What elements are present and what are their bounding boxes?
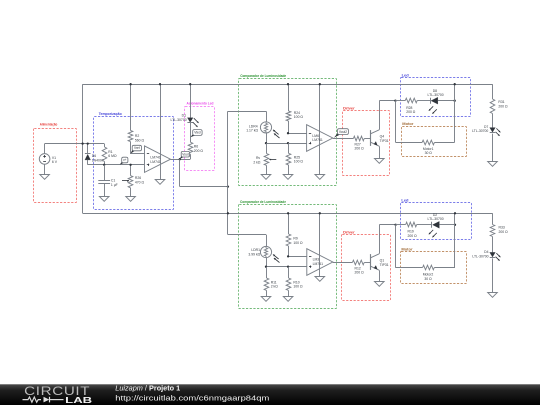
svg-text:Comparador de Luminosidade: Comparador de Luminosidade	[240, 73, 287, 78]
resistor R33 200 Ohm	[490, 213, 508, 252]
resistor R31 200 Ohm	[490, 84, 508, 127]
svg-text:2 kΩ: 2 kΩ	[253, 160, 261, 164]
wire to LDR1	[228, 235, 267, 247]
wire mid vertical	[227, 111, 229, 234]
wire rail drop to LED D1	[190, 84, 192, 118]
wire V+ top rail	[83, 84, 493, 86]
junction mid vertical at lower rail	[227, 212, 229, 214]
svg-text:Alimentação: Alimentação	[40, 122, 58, 127]
wire D1 to R6	[190, 123, 192, 143]
led D8 LTL-30700	[428, 89, 444, 114]
svg-text:1 µF: 1 µF	[111, 183, 118, 187]
op-amp LM3 power rail line	[319, 213, 321, 277]
svg-text:30 Ω: 30 Ω	[425, 151, 433, 155]
op-amp LM3 labels	[313, 258, 323, 266]
svg-text:LTL-30700: LTL-30700	[472, 255, 488, 259]
ground below Q4	[375, 159, 385, 164]
junction opamp supply at rail	[159, 83, 161, 85]
resistor R25 100 Ohm	[286, 143, 303, 174]
wire timer output down-right	[180, 159, 228, 186]
junction right vertical at lower rail	[454, 212, 456, 214]
junction R25 top	[287, 142, 289, 144]
junction D6 top	[87, 142, 89, 144]
wire V1 top to rail drop	[45, 144, 105, 154]
junction R10 top	[287, 266, 289, 268]
wire plus input upper comparator	[266, 143, 307, 145]
svg-text:3.99 kΩ: 3.99 kΩ	[248, 252, 260, 256]
wire motor1 branch	[395, 101, 422, 143]
wire timer output	[171, 159, 191, 161]
svg-text:http://circuitlab.com/c6nmgaar: http://circuitlab.com/c6nmgaarp84qm	[115, 394, 269, 403]
svg-text:Vref: Vref	[134, 146, 140, 150]
op-amp LM6 power rail line	[319, 84, 321, 174]
junction R2 at rail	[129, 83, 131, 85]
junction R9 at lower rail	[287, 212, 289, 214]
resistor R9 100 Ohm	[286, 213, 303, 256]
svg-text:TIP31: TIP31	[380, 263, 389, 267]
resistor R11 2 kOhm	[264, 267, 278, 297]
ground below R26	[126, 197, 136, 202]
junction R26 top	[129, 164, 131, 166]
op-amp LM6 input signs	[309, 134, 311, 145]
resistor R1 6 MOhm	[102, 144, 117, 165]
potentiometer Rv 2 kOhm	[253, 143, 276, 174]
junction D8 right	[454, 100, 456, 102]
junction LDR1 bottom	[265, 266, 267, 268]
resistor R27 200 Ohm	[353, 136, 370, 151]
ground below LM6	[315, 175, 325, 180]
transistor Q1 TIP31	[371, 254, 389, 270]
op-amp LM3 input signs	[309, 257, 311, 268]
ground below R11	[261, 297, 271, 302]
node tag Vled	[190, 130, 202, 138]
wire long V+ lower rail	[83, 213, 493, 215]
junction at mid vertical	[227, 185, 229, 187]
voltage source V1 6 V	[39, 154, 57, 165]
svg-text:LM741: LM741	[313, 262, 323, 266]
resistor R12 200 Ohm	[352, 260, 370, 275]
wire motor2 branch	[396, 225, 423, 268]
wire plus input lower comparator	[266, 266, 307, 268]
region box Comparador de Luminosidade upper	[239, 73, 337, 185]
capacitor C1 1 uF	[98, 165, 117, 196]
region box Temporizacao	[94, 111, 174, 210]
ground below R25	[283, 175, 293, 180]
junction D1 drop at rail	[189, 83, 191, 85]
ground below R10	[283, 297, 293, 302]
wire V1 bottom	[44, 164, 46, 174]
resistor R28 200 Ohm	[395, 98, 430, 114]
wire LDR1 bottom	[266, 258, 268, 267]
wire Q4 collector up	[379, 101, 395, 130]
svg-text:Led: Led	[401, 197, 409, 202]
wire v+ net	[88, 164, 145, 166]
wire right vertical lower	[454, 213, 456, 267]
svg-text:1.17 kΩ: 1.17 kΩ	[246, 129, 258, 133]
op-amp LM741 power rail line	[160, 84, 162, 180]
wire D2 to right vertical	[440, 224, 456, 226]
svg-text:100 Ω: 100 Ω	[293, 285, 303, 289]
svg-text:200 Ω: 200 Ω	[408, 234, 418, 238]
svg-text:200 Ω: 200 Ω	[355, 271, 365, 275]
svg-text:Comparador de Luminosidade: Comparador de Luminosidade	[240, 199, 287, 204]
region box Comparador de Luminosidade lower	[239, 199, 337, 309]
op-amp LM3 LM741	[307, 249, 333, 276]
svg-text:470 Ω: 470 Ω	[135, 181, 145, 185]
wire D7 to ground	[492, 134, 494, 162]
transistor Q4 TIP31	[371, 130, 389, 146]
junction LM6 supply at rail	[319, 83, 321, 85]
resistor R6 200 Ohm	[188, 142, 203, 159]
led D7 LTL-30700	[472, 125, 500, 136]
junction LED branch upper	[394, 100, 396, 102]
svg-text:Vled: Vled	[194, 131, 201, 135]
op-amp LM741 labels	[150, 156, 160, 164]
svg-text:2 kΩ: 2 kΩ	[271, 285, 279, 289]
wire Q1 emitter down	[379, 270, 381, 282]
svg-text:Luizapm / Projeto 1: Luizapm / Projeto 1	[115, 384, 180, 393]
svg-text:LAB: LAB	[65, 395, 92, 405]
resistor R19 200 Ohm	[396, 222, 432, 238]
ground below op-amp timer	[155, 180, 165, 185]
diode D6 1N4007	[85, 144, 104, 165]
svg-text:LTL-30700: LTL-30700	[170, 118, 186, 122]
svg-text:200 Ω: 200 Ω	[499, 230, 509, 234]
junction LDR4 bottom	[265, 142, 267, 144]
op-amp LM741 input signs	[147, 154, 149, 167]
node tag v+	[120, 157, 128, 164]
junction LM3 supply at lower rail	[319, 212, 321, 214]
region box Driver lower	[342, 229, 391, 300]
region box Motor lower	[401, 246, 467, 283]
motor Motor1 30 Ohm	[422, 140, 455, 155]
svg-text:100 Ω: 100 Ω	[294, 160, 304, 164]
ground below Rv	[261, 175, 271, 180]
wire Q4 emitter down	[379, 146, 381, 158]
junction D2 right	[454, 224, 456, 226]
wire LM6 output	[333, 138, 354, 140]
ground below V1	[40, 175, 50, 180]
wire D4 to ground	[492, 258, 494, 292]
wire right vertical upper	[454, 84, 456, 142]
svg-text:Motor: Motor	[401, 246, 413, 251]
junction R1 bottom	[103, 164, 105, 166]
svg-text:Driver: Driver	[343, 229, 355, 234]
junction LED branch lower	[394, 224, 396, 226]
junction right vertical at rail	[454, 83, 456, 85]
junction R9 bottom	[287, 255, 289, 257]
region box Led upper	[401, 73, 471, 117]
resistor R2 560 Ohm	[128, 84, 144, 154]
region box Motor upper	[402, 121, 467, 157]
photoresistor LDR4 1.17 kOhm	[246, 122, 279, 138]
resistor R10 100 Ohm	[286, 267, 303, 297]
junction R24 at rail	[287, 83, 289, 85]
svg-text:200 Ω: 200 Ω	[355, 147, 365, 151]
region box Led lower	[401, 197, 472, 239]
wire D8 to right vertical	[438, 100, 455, 102]
wire minus input upper comparator	[288, 133, 307, 135]
ground below D7	[488, 162, 498, 167]
region box Acionamento Led	[185, 101, 215, 171]
svg-text:LTL-30700: LTL-30700	[428, 217, 444, 221]
wire minus input lower comparator	[288, 256, 307, 258]
svg-text:Vout2: Vout2	[339, 130, 347, 134]
wire Q1 collector up	[379, 225, 395, 254]
node tag Vout2	[334, 129, 349, 138]
svg-text:200 Ω: 200 Ω	[406, 110, 416, 114]
svg-text:Vout: Vout	[182, 152, 188, 156]
svg-text:Led: Led	[402, 73, 410, 78]
junction at rail drop and V1 wire	[81, 142, 83, 144]
svg-text:560 Ω: 560 Ω	[135, 139, 145, 143]
svg-text:D1: D1	[182, 113, 186, 117]
led D4 LTL-30700	[472, 250, 500, 261]
wire LDR4 bottom	[266, 133, 268, 143]
wire left V+ drop	[82, 84, 84, 213]
svg-text:LM741: LM741	[312, 138, 322, 142]
wire R2 bottom to op-amp minus	[131, 153, 145, 155]
svg-text:LTL-30700: LTL-30700	[472, 129, 488, 133]
motor Motor2 30 Ohm	[423, 265, 455, 281]
region box Driver upper	[343, 106, 390, 176]
svg-text:TIP31: TIP31	[380, 139, 389, 143]
led D2 LTL-30700	[428, 213, 444, 237]
svg-text:Motor: Motor	[402, 121, 414, 126]
svg-text:30 Ω: 30 Ω	[424, 277, 432, 281]
svg-text:200 Ω: 200 Ω	[498, 104, 508, 108]
op-amp LM6 LM741	[307, 125, 333, 152]
op-amp LM741 timer	[145, 146, 171, 173]
led D1 LTL-30700	[170, 113, 198, 127]
svg-text:v+: v+	[123, 158, 127, 162]
potentiometer R26 470 Ohm	[122, 165, 144, 196]
photoresistor LDR1 3.99 kOhm	[248, 246, 279, 262]
ground below C1	[99, 197, 109, 202]
ground below Q1	[375, 282, 385, 287]
ground below LM3	[315, 277, 325, 282]
node tag Vref	[131, 145, 142, 153]
svg-text:6 V: 6 V	[52, 160, 58, 164]
svg-text:LM741: LM741	[150, 160, 160, 164]
resistor R24 100 Ohm	[286, 84, 303, 133]
svg-text:Temporização: Temporização	[99, 111, 122, 116]
svg-text:6 MΩ: 6 MΩ	[108, 154, 117, 158]
ground below D4	[488, 293, 498, 298]
node tag Vout	[180, 151, 190, 159]
junction R24 bottom	[287, 132, 289, 134]
wire to LDR4	[228, 111, 267, 122]
svg-text:100 Ω: 100 Ω	[293, 241, 303, 245]
wire LM3 output	[333, 262, 353, 264]
svg-text:100 Ω: 100 Ω	[294, 115, 304, 119]
svg-text:200 Ω: 200 Ω	[194, 149, 204, 153]
footer bar with CircuitLab logo and title	[0, 384, 540, 405]
svg-text:Driver: Driver	[343, 106, 355, 111]
region box Alimentacao	[34, 122, 77, 203]
op-amp LM6 labels	[312, 134, 322, 142]
svg-text:LTL-30700: LTL-30700	[428, 93, 444, 97]
junction timer output branch	[179, 158, 181, 160]
